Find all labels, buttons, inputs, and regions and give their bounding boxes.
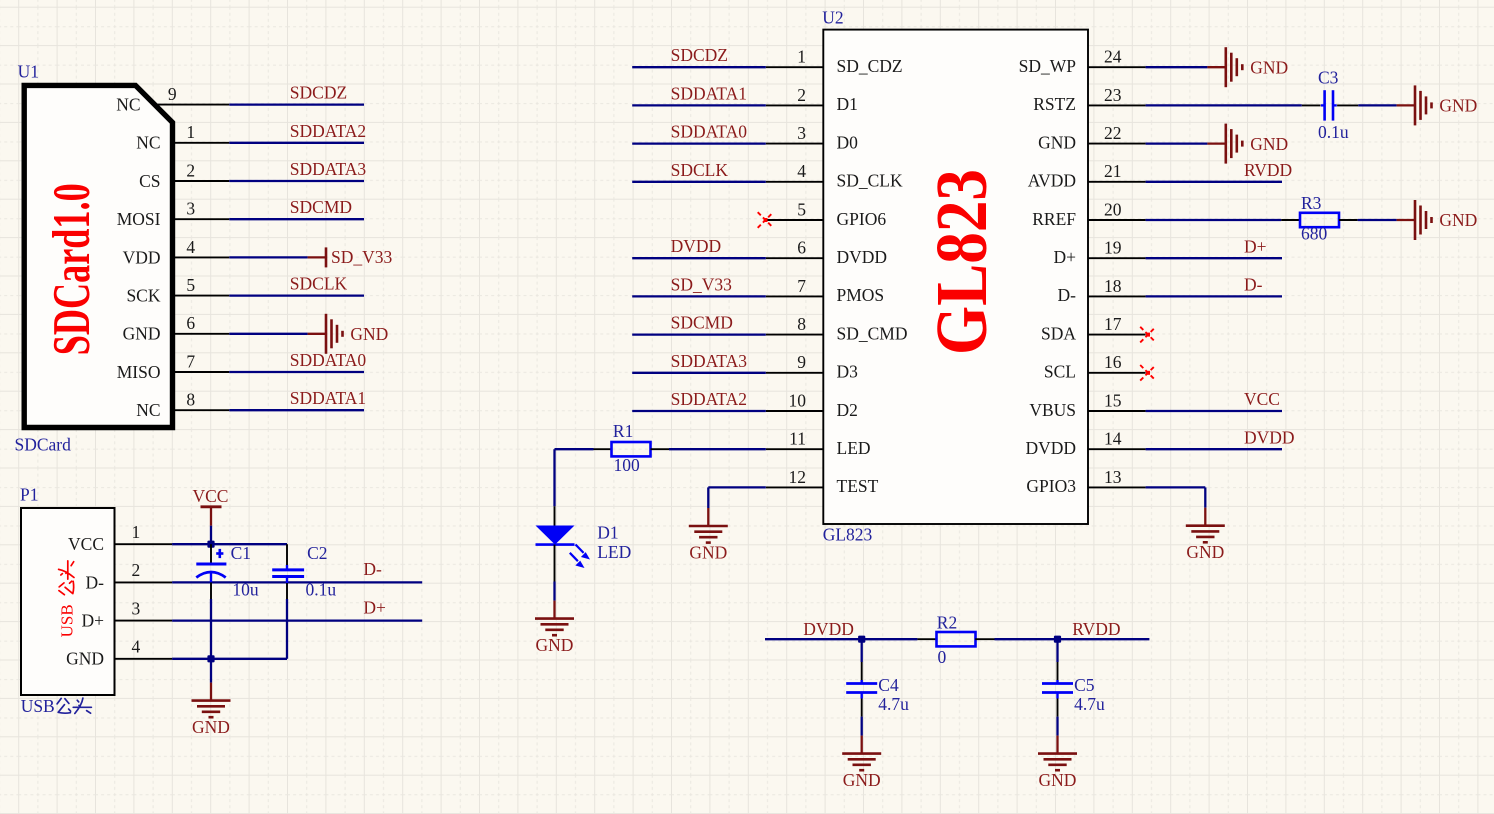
- svg-text:1: 1: [186, 122, 195, 142]
- svg-text:DVDD: DVDD: [671, 236, 722, 256]
- U2 pin 12 name: [837, 476, 879, 496]
- svg-text:USB: USB: [21, 696, 55, 716]
- U2 pin 1 number: [797, 47, 806, 67]
- svg-text:SDCDZ: SDCDZ: [290, 83, 347, 103]
- wire P1.4 GND to C2 bottom corner: [172, 658, 287, 660]
- P1 pin 3 D+: [115, 620, 173, 622]
- U1 pin 4 VDD: [171, 256, 229, 258]
- wire U2 pin 1 to net SDCDZ: [632, 66, 766, 68]
- U2 pin 16 SCL: [1088, 372, 1146, 374]
- net label SDCDZ: [671, 45, 728, 65]
- net label SDDATA0: [671, 122, 748, 142]
- svg-text:SDDATA2: SDDATA2: [671, 389, 747, 409]
- svg-text:P1: P1: [20, 484, 38, 504]
- svg-text:2: 2: [186, 160, 195, 180]
- svg-text:SDCLK: SDCLK: [671, 160, 729, 180]
- U1 red label SDCard1.0: [43, 183, 101, 355]
- wire corner down to LED: [553, 449, 555, 506]
- svg-text:PMOS: PMOS: [837, 285, 885, 305]
- svg-text:LED: LED: [597, 542, 631, 562]
- U2 red label GL823: [921, 169, 1002, 355]
- net label SD_V33: [671, 274, 733, 294]
- ground GND (U1 pin 6): [308, 314, 389, 354]
- svg-text:GND: GND: [192, 717, 230, 737]
- U1 pin 7 number: [186, 351, 195, 371]
- svg-text:SDCard: SDCard: [15, 434, 72, 454]
- svg-text:NC: NC: [116, 95, 140, 115]
- wire U2 pin 24 to GND: [1146, 66, 1208, 68]
- U2 pin 21 AVDD: [1088, 181, 1146, 183]
- R2 designator: [937, 612, 957, 632]
- wire LED to GND: [553, 582, 555, 601]
- net label RVDD (rail): [1072, 619, 1120, 639]
- svg-text:LED: LED: [837, 438, 871, 458]
- U1 pin 7 MISO: [171, 371, 229, 373]
- U2 pin 8 number: [797, 314, 806, 334]
- R2 right pin: [975, 638, 994, 640]
- net label DVDD: [671, 236, 722, 256]
- U2 pin 18 D-: [1088, 295, 1146, 297]
- svg-text:D-: D-: [86, 572, 105, 592]
- U2 pin 19 D+: [1088, 257, 1146, 259]
- U1 pin 9 number: [168, 84, 177, 104]
- svg-text:D+: D+: [1053, 247, 1076, 267]
- svg-text:GPIO3: GPIO3: [1026, 476, 1076, 496]
- svg-text:3: 3: [797, 123, 806, 143]
- junction VCC/C1: [207, 541, 214, 548]
- P1 pin 3 name: [81, 611, 104, 631]
- net label SDDATA2: [671, 389, 747, 409]
- LED D1 bottom pin: [554, 545, 556, 582]
- U2 pin 20 name: [1032, 209, 1076, 229]
- U2 pin 6 name: [837, 247, 888, 267]
- D1 comment LED: [597, 542, 631, 562]
- U1 pin 5 SCK: [171, 295, 229, 297]
- C5 top pin: [1057, 662, 1059, 681]
- C5 bottom pin: [1057, 699, 1059, 717]
- U1 pin 7 name: [117, 362, 161, 382]
- wire U2 pin 19 to net D+: [1146, 257, 1282, 259]
- capacitor C3: [1321, 90, 1337, 120]
- U2 pin 7 PMOS: [766, 295, 824, 297]
- svg-text:TEST: TEST: [837, 476, 879, 496]
- svg-text:MISO: MISO: [117, 362, 161, 382]
- svg-text:SD_V33: SD_V33: [671, 274, 733, 294]
- wire C2 top: [286, 544, 288, 570]
- svg-text:14: 14: [1104, 429, 1122, 449]
- U2 pin 4 name: [837, 171, 903, 191]
- U2 pin 23 number: [1104, 85, 1122, 105]
- svg-text:RREF: RREF: [1032, 209, 1076, 229]
- wire LED corner to R1: [555, 448, 594, 450]
- resistor R3: [1300, 213, 1339, 227]
- U1 pin 6 name: [123, 324, 161, 344]
- net label D+: [363, 597, 386, 617]
- ground GND (GPIO3): [1186, 508, 1225, 563]
- wire U2 pin 13 GPIO3: [1146, 487, 1206, 507]
- svg-text:GL823: GL823: [921, 169, 1002, 355]
- net label SDDATA3: [290, 159, 367, 179]
- wire U1 pin 5 to net SDCLK: [229, 294, 364, 296]
- P1 pin 4 name: [66, 649, 104, 669]
- U2 pin 11 number: [789, 429, 806, 449]
- svg-text:DVDD: DVDD: [1244, 427, 1295, 447]
- U1 pin 5 name: [126, 286, 160, 306]
- U2 pin 23 RSTZ: [1088, 104, 1146, 106]
- U1 pin 3 MOSI: [171, 218, 229, 220]
- wire U1 pin 3 to net SDCMD: [229, 218, 364, 220]
- svg-text:680: 680: [1301, 224, 1328, 244]
- R1 value 100: [614, 455, 641, 475]
- wire GND junction down: [210, 659, 212, 683]
- net label DVDD: [1244, 427, 1295, 447]
- svg-text:9: 9: [797, 352, 806, 372]
- svg-text:DVDD: DVDD: [803, 619, 854, 639]
- C3 designator: [1318, 67, 1339, 87]
- U2 pin 7 number: [797, 276, 806, 296]
- wire U2 pin 7 to net SD_V33: [632, 295, 766, 297]
- svg-text:0.1u: 0.1u: [306, 580, 337, 600]
- wire U1 pin 4 to SD_V33: [229, 256, 307, 258]
- svg-text:R2: R2: [937, 612, 957, 632]
- U2 pin 22 number: [1104, 123, 1122, 143]
- U2 pin 22 GND: [1088, 143, 1146, 145]
- svg-text:GND: GND: [843, 770, 881, 790]
- U2 pin 7 name: [837, 285, 885, 305]
- U2 pin 12 TEST: [766, 486, 824, 488]
- svg-text:D3: D3: [837, 362, 859, 382]
- svg-text:D+: D+: [363, 597, 386, 617]
- U2 pin 23 name: [1033, 94, 1076, 114]
- ground GND (C4): [842, 736, 881, 791]
- U2 pin 3 name: [837, 132, 859, 152]
- U2 pin 24 SD_WP: [1088, 66, 1146, 68]
- P1 pin 1 name: [68, 534, 104, 554]
- svg-text:8: 8: [797, 314, 806, 334]
- ground GND (R3): [1397, 200, 1478, 240]
- U2 pin 24 name: [1019, 56, 1077, 76]
- U1 pin 2 number: [186, 160, 195, 180]
- connector U1 SDCard1.0 body: [24, 85, 172, 427]
- svg-text:0: 0: [938, 647, 947, 667]
- resistor R1: [612, 442, 651, 456]
- net label SDDATA1: [290, 388, 366, 408]
- U2 pin 15 VBUS: [1088, 410, 1146, 412]
- power port SD_V33 (bar): [308, 247, 393, 267]
- svg-text:8: 8: [186, 390, 195, 410]
- net label VCC: [1244, 389, 1280, 409]
- U1 pin 1 NC: [171, 142, 229, 144]
- svg-text:GPIO6: GPIO6: [837, 209, 887, 229]
- ground GND (U2 pin 22): [1207, 124, 1288, 164]
- C2 designator: [307, 543, 327, 563]
- P1 pin 2 D-: [115, 581, 173, 583]
- svg-text:GND: GND: [689, 543, 727, 563]
- svg-text:GND: GND: [1038, 132, 1076, 152]
- U1 pin 1 number: [186, 122, 195, 142]
- svg-text:VBUS: VBUS: [1029, 400, 1076, 420]
- svg-text:SD_WP: SD_WP: [1019, 56, 1077, 76]
- wire U2 pin 4 to net SDCLK: [632, 181, 766, 183]
- svg-text:6: 6: [186, 313, 195, 333]
- U1 pin 8 number: [186, 390, 195, 410]
- wire U2 pin 18 to net D-: [1146, 295, 1282, 297]
- svg-text:10: 10: [789, 390, 807, 410]
- svg-text:12: 12: [789, 467, 807, 487]
- wire U2 pin 23 to C3: [1146, 104, 1302, 106]
- U1 pin 6 number: [186, 313, 195, 333]
- R1 left pin: [594, 448, 612, 450]
- U1 pin 6 GND: [171, 333, 229, 335]
- C3 value 0.1u: [1318, 122, 1349, 142]
- wire U2 pin 22 to GND: [1146, 142, 1208, 144]
- svg-text:SDCLK: SDCLK: [290, 274, 348, 294]
- net label SDDATA1: [671, 83, 747, 103]
- net label D-: [363, 559, 382, 579]
- wire R3 to GND: [1358, 219, 1397, 221]
- connector P1 USB body: [21, 508, 115, 695]
- C3 right pin: [1337, 104, 1358, 106]
- wire C1 to GND junction: [210, 599, 212, 659]
- wire C2 bottom: [286, 577, 288, 659]
- U1 pin 2 name: [139, 171, 160, 191]
- U2 pin 19 number: [1104, 238, 1122, 258]
- wire U1 pin 6 to GND: [229, 333, 307, 335]
- P1 pin 4 number: [132, 637, 141, 657]
- svg-text:SCL: SCL: [1044, 362, 1076, 382]
- U2 pin 17 SDA: [1088, 334, 1146, 336]
- svg-text:21: 21: [1104, 161, 1122, 181]
- svg-text:D+: D+: [1244, 236, 1267, 256]
- svg-text:GND: GND: [1039, 770, 1077, 790]
- U2 pin 2 number: [797, 85, 806, 105]
- net label SDCLK: [290, 274, 348, 294]
- svg-text:SDCDZ: SDCDZ: [671, 45, 728, 65]
- svg-text:GND: GND: [66, 649, 104, 669]
- capacitor C5: [1042, 680, 1073, 699]
- svg-text:3: 3: [186, 199, 195, 219]
- capacitor C2: [272, 570, 304, 577]
- wire P1.1 VCC to C2 top corner: [172, 543, 287, 545]
- U1 pin 4 number: [186, 237, 195, 257]
- no-connect marker U2 pin 17: [1140, 327, 1156, 343]
- net label DVDD (rail): [803, 619, 854, 639]
- wire R2 to RVDD: [995, 638, 1150, 640]
- U2 pin 15 number: [1104, 390, 1122, 410]
- net label SDCDZ: [290, 83, 347, 103]
- svg-text:1: 1: [797, 47, 806, 67]
- svg-text:23: 23: [1104, 85, 1122, 105]
- wire VCC stem: [210, 526, 212, 545]
- svg-text:1: 1: [132, 522, 141, 542]
- svg-text:GND: GND: [536, 635, 574, 655]
- P1 pin 1 number: [132, 522, 141, 542]
- svg-text:22: 22: [1104, 123, 1122, 143]
- svg-text:NC: NC: [136, 133, 160, 153]
- svg-text:C1: C1: [231, 543, 251, 563]
- svg-text:SDDATA1: SDDATA1: [290, 388, 366, 408]
- net label SDDATA2: [290, 121, 366, 141]
- svg-text:20: 20: [1104, 199, 1122, 219]
- U2 pin 5 number: [797, 199, 806, 219]
- svg-text:GND: GND: [1250, 134, 1288, 154]
- svg-text:SD_CLK: SD_CLK: [837, 171, 903, 191]
- svg-text:AVDD: AVDD: [1028, 171, 1076, 191]
- no-connect marker U2 pin 16: [1140, 365, 1156, 381]
- U2 pin 15 name: [1029, 400, 1076, 420]
- net label SDCMD: [671, 313, 733, 333]
- ground GND (U2 pin 24): [1207, 47, 1288, 87]
- wire U2 pin 3 to net SDDATA0: [632, 142, 766, 144]
- U2 pin 10 name: [837, 400, 858, 420]
- U1 pin 9 NC: [156, 104, 229, 106]
- svg-text:D-: D-: [363, 559, 382, 579]
- svg-text:D1: D1: [837, 94, 858, 114]
- svg-text:VCC: VCC: [68, 534, 104, 554]
- svg-text:SD_CDZ: SD_CDZ: [837, 56, 903, 76]
- svg-text:RVDD: RVDD: [1072, 619, 1120, 639]
- svg-text:C5: C5: [1074, 675, 1095, 695]
- svg-text:U1: U1: [18, 62, 39, 82]
- svg-text:4: 4: [797, 161, 806, 181]
- U1 pin 3 number: [186, 199, 195, 219]
- R3 value 680: [1301, 224, 1328, 244]
- ground GND (TEST): [689, 508, 728, 563]
- U2 designator: [822, 8, 843, 28]
- svg-text:MOSI: MOSI: [117, 209, 161, 229]
- wire U2 pin 12 TEST: [708, 487, 766, 508]
- U2 pin 5 GPIO6: [766, 219, 824, 221]
- junction DVDD/C4: [858, 636, 865, 643]
- svg-text:18: 18: [1104, 276, 1122, 296]
- svg-text:SDDATA2: SDDATA2: [290, 121, 366, 141]
- svg-text:6: 6: [797, 238, 806, 258]
- LED D1 top pin: [554, 506, 556, 525]
- svg-text:GND: GND: [1186, 542, 1224, 562]
- C2 value 0.1u: [306, 580, 337, 600]
- U2 pin 1 name: [837, 56, 903, 76]
- ground GND (P1): [192, 683, 231, 738]
- U2 pin 1 SD_CDZ: [766, 66, 824, 68]
- wire rail to C5: [1056, 639, 1058, 662]
- U2 pin 12 number: [789, 467, 807, 487]
- svg-text:4: 4: [186, 237, 195, 257]
- svg-text:SDDATA3: SDDATA3: [290, 159, 367, 179]
- U2 pin 9 number: [797, 352, 806, 372]
- svg-text:0.1u: 0.1u: [1318, 122, 1349, 142]
- net label SDCMD: [290, 197, 352, 217]
- svg-text:D-: D-: [1244, 275, 1263, 295]
- C1 designator: [231, 543, 251, 563]
- svg-text:GND: GND: [1250, 57, 1288, 77]
- wire C3 to GND: [1358, 104, 1396, 106]
- svg-text:R3: R3: [1301, 193, 1322, 213]
- svg-text:24: 24: [1104, 47, 1122, 67]
- U1 pin 8 name: [136, 400, 160, 420]
- ground GND (LED): [535, 601, 574, 656]
- C5 designator: [1074, 675, 1095, 695]
- capacitor C1 (polarized): [196, 544, 226, 599]
- svg-text:SDCard1.0: SDCard1.0: [43, 183, 101, 355]
- svg-text:2: 2: [132, 560, 141, 580]
- U2 comment GL823: [823, 525, 873, 545]
- svg-text:R1: R1: [613, 421, 633, 441]
- U2 pin 10 D2: [766, 410, 824, 412]
- R3 left pin: [1281, 219, 1300, 221]
- P1 red label USB公头 (rotated): [58, 561, 77, 638]
- wire U2 pin 21 to net RVDD: [1146, 181, 1282, 183]
- wire R1 to U2 pin 11: [669, 448, 766, 450]
- svg-text:4: 4: [132, 637, 141, 657]
- U1 pin 1 name: [136, 133, 160, 153]
- U2 pin 18 number: [1104, 276, 1122, 296]
- U2 pin 14 DVDD: [1088, 448, 1146, 450]
- R3 designator: [1301, 193, 1322, 213]
- ground GND (C5): [1038, 736, 1077, 791]
- wire U1 pin 9 to net SDCDZ: [229, 103, 364, 105]
- U2 pin 20 number: [1104, 199, 1122, 219]
- U2 pin 22 name: [1038, 132, 1076, 152]
- U2 pin 19 name: [1053, 247, 1076, 267]
- C1 value 10u: [232, 580, 259, 600]
- svg-text:GND: GND: [1439, 96, 1477, 116]
- svg-text:9: 9: [168, 84, 177, 104]
- net label RVDD: [1244, 160, 1292, 180]
- wire U2 pin 15 to net VCC: [1146, 410, 1282, 412]
- net label D+: [1244, 236, 1267, 256]
- net label D-: [1244, 275, 1263, 295]
- R1 right pin: [651, 448, 670, 450]
- svg-text:GND: GND: [350, 324, 388, 344]
- svg-text:7: 7: [797, 276, 806, 296]
- U2 pin 13 number: [1104, 467, 1122, 487]
- svg-text:5: 5: [186, 275, 195, 295]
- svg-text:CS: CS: [139, 171, 160, 191]
- svg-text:GND: GND: [1439, 210, 1477, 230]
- wire U1 pin 2 to net SDDATA3: [229, 180, 364, 182]
- U2 pin 3 D0: [766, 143, 824, 145]
- U2 pin 8 SD_CMD: [766, 334, 824, 336]
- wire C5 to GND: [1056, 717, 1058, 736]
- svg-text:C3: C3: [1318, 67, 1339, 87]
- svg-text:VCC: VCC: [193, 486, 229, 506]
- svg-text:SDDATA3: SDDATA3: [671, 351, 748, 371]
- svg-text:100: 100: [614, 455, 641, 475]
- svg-text:DVDD: DVDD: [1025, 438, 1076, 458]
- svg-text:SDDATA1: SDDATA1: [671, 83, 747, 103]
- svg-text:15: 15: [1104, 390, 1122, 410]
- P1 pin 2 name: [86, 572, 105, 592]
- svg-text:VCC: VCC: [1244, 389, 1280, 409]
- svg-text:4.7u: 4.7u: [1074, 694, 1105, 714]
- wire U2 pin 9 to net SDDATA3: [632, 372, 766, 374]
- P1 pin 2 number: [132, 560, 141, 580]
- U2 pin 13 GPIO3: [1088, 486, 1146, 488]
- U2 pin 13 name: [1026, 476, 1076, 496]
- U2 pin 6 DVDD: [766, 257, 824, 259]
- P1 comment USB公头: [21, 696, 92, 716]
- no-connect marker U2 pin 5: [758, 212, 774, 228]
- U1 comment SDCard: [15, 434, 72, 454]
- U2 pin 24 number: [1104, 47, 1122, 67]
- U2 pin 20 RREF: [1088, 219, 1146, 221]
- wire U1 pin 8 to net SDDATA1: [229, 409, 364, 411]
- svg-text:2: 2: [797, 85, 806, 105]
- R3 right pin: [1339, 219, 1358, 221]
- svg-text:7: 7: [186, 351, 195, 371]
- U2 pin 6 number: [797, 238, 806, 258]
- LED D1 symbol: [536, 526, 591, 569]
